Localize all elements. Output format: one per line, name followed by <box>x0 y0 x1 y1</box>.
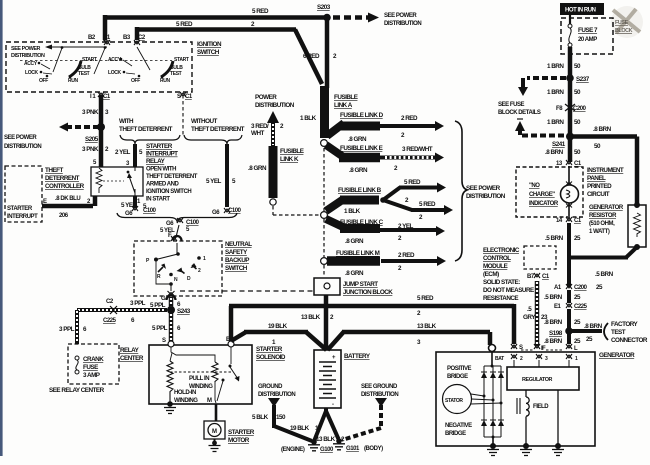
svg-text:.8 BRN: .8 BRN <box>584 323 603 330</box>
svg-text:C100: C100 <box>228 208 242 214</box>
svg-text:C200: C200 <box>573 106 587 112</box>
svg-text:M: M <box>212 429 217 435</box>
svg-text:CONTROLLER: CONTROLLER <box>45 183 85 190</box>
svg-text:RUN: RUN <box>160 78 171 84</box>
svg-text:S203: S203 <box>317 4 331 11</box>
svg-text:SWITCH: SWITCH <box>197 49 220 56</box>
svg-text:.8 GRN: .8 GRN <box>345 238 364 245</box>
svg-text:ACCY: ACCY <box>24 61 38 67</box>
svg-text:FUSIBLE LINK B: FUSIBLE LINK B <box>338 187 382 194</box>
svg-text:150: 150 <box>276 414 286 421</box>
svg-text:BRIDGE: BRIDGE <box>445 431 466 437</box>
svg-text:5 PPL: 5 PPL <box>152 325 168 332</box>
svg-text:ACCY: ACCY <box>108 57 122 63</box>
svg-text:BATTERY: BATTERY <box>344 353 371 360</box>
svg-text:FUSIBLE LINK C: FUSIBLE LINK C <box>340 219 384 226</box>
svg-text:THEFT DETERRENT: THEFT DETERRENT <box>119 126 173 133</box>
svg-text:50: 50 <box>574 149 581 156</box>
svg-text:C1: C1 <box>185 94 193 100</box>
svg-text:SEE POWER: SEE POWER <box>11 46 41 52</box>
svg-text:50: 50 <box>574 63 581 70</box>
svg-text:POSITIVE: POSITIVE <box>447 366 472 372</box>
svg-text:1 BLK: 1 BLK <box>344 208 361 215</box>
svg-text:SEE RELAY CENTER: SEE RELAY CENTER <box>49 387 105 394</box>
svg-text:MOTOR: MOTOR <box>228 437 250 444</box>
svg-text:25: 25 <box>574 235 581 242</box>
svg-text:ELECTRONIC: ELECTRONIC <box>483 247 520 254</box>
svg-text:2 YEL: 2 YEL <box>115 149 131 156</box>
svg-text:POWER: POWER <box>255 94 277 101</box>
svg-text:FUSE: FUSE <box>83 364 98 371</box>
svg-text:RELAY: RELAY <box>146 158 166 165</box>
svg-text:PANEL: PANEL <box>587 175 606 182</box>
svg-text:.8 GRN: .8 GRN <box>248 165 267 172</box>
svg-text:25: 25 <box>574 319 581 326</box>
svg-text:BLOCK DETAILS: BLOCK DETAILS <box>498 110 541 116</box>
svg-text:STATOR: STATOR <box>445 398 463 404</box>
svg-text:START: START <box>82 57 97 63</box>
svg-text:WITHOUT: WITHOUT <box>191 118 218 125</box>
svg-text:SEE POWER: SEE POWER <box>384 13 417 19</box>
svg-text:SOLENOID: SOLENOID <box>256 354 286 361</box>
svg-text:206: 206 <box>59 213 69 219</box>
svg-text:LOCK: LOCK <box>25 70 39 76</box>
svg-text:FUSE 7: FUSE 7 <box>578 27 598 34</box>
svg-text:C2: C2 <box>106 299 114 305</box>
svg-text:FACTORY: FACTORY <box>611 321 639 328</box>
svg-text:STARTER: STARTER <box>146 143 173 150</box>
svg-text:.5 BRN: .5 BRN <box>595 271 614 278</box>
svg-text:3 PPL: 3 PPL <box>59 326 75 333</box>
svg-text:3 RED/: 3 RED/ <box>251 123 269 130</box>
svg-text:INSTRUMENT: INSTRUMENT <box>587 167 624 174</box>
svg-text:LINK K: LINK K <box>280 156 299 163</box>
svg-text:THEFT DETERRENT: THEFT DETERRENT <box>146 174 198 180</box>
svg-text:SEE GROUND: SEE GROUND <box>361 384 398 390</box>
svg-text:INTERRUPT: INTERRUPT <box>7 214 38 220</box>
svg-text:HOT IN RUN: HOT IN RUN <box>565 8 596 14</box>
svg-text:REGULATOR: REGULATOR <box>522 377 553 383</box>
svg-text:RELAY: RELAY <box>120 347 140 354</box>
svg-text:B3: B3 <box>123 35 131 41</box>
svg-text:START: START <box>174 57 189 63</box>
svg-text:OFF: OFF <box>131 78 140 84</box>
svg-text:SEE FUSE: SEE FUSE <box>498 102 525 108</box>
svg-text:25: 25 <box>574 338 581 345</box>
svg-text:STARTER: STARTER <box>7 206 33 212</box>
svg-text:S205: S205 <box>85 136 99 143</box>
svg-text:G6: G6 <box>212 210 220 216</box>
svg-text:JUMP START: JUMP START <box>343 281 378 288</box>
svg-text:C225: C225 <box>574 304 588 310</box>
svg-text:(BODY): (BODY) <box>364 446 383 452</box>
svg-text:S241: S241 <box>552 141 566 148</box>
svg-text:LOCK: LOCK <box>108 70 122 76</box>
svg-text:MODULE: MODULE <box>483 263 508 270</box>
svg-text:IN START: IN START <box>146 197 170 203</box>
svg-text:HOLD-IN: HOLD-IN <box>174 390 196 396</box>
svg-text:RESISTANCE: RESISTANCE <box>483 295 518 302</box>
svg-text:C100: C100 <box>186 220 200 226</box>
svg-text:THEFT DETERRENT: THEFT DETERRENT <box>191 126 245 133</box>
svg-text:1 WATT): 1 WATT) <box>589 229 610 235</box>
svg-text:13 BLK: 13 BLK <box>417 323 437 330</box>
svg-text:13 BLK: 13 BLK <box>316 436 336 443</box>
svg-text:SWITCH: SWITCH <box>225 265 248 272</box>
svg-text:19 BLK: 19 BLK <box>290 425 310 432</box>
svg-text:S243: S243 <box>177 308 191 315</box>
svg-text:3 AMP: 3 AMP <box>83 372 100 379</box>
svg-text:GROUND: GROUND <box>258 384 283 390</box>
svg-text:5 YEL: 5 YEL <box>206 178 222 185</box>
svg-text:OFF: OFF <box>39 78 48 84</box>
svg-text:2 RED: 2 RED <box>398 252 415 259</box>
svg-text:G101: G101 <box>346 446 360 452</box>
svg-text:PULL IN: PULL IN <box>189 376 209 382</box>
svg-text:IGNITION SWITCH: IGNITION SWITCH <box>146 189 191 195</box>
svg-text:GENERATOR: GENERATOR <box>599 352 635 359</box>
svg-text:DO NOT MEASURE: DO NOT MEASURE <box>483 287 534 294</box>
svg-text:CIRCUIT: CIRCUIT <box>587 191 610 198</box>
svg-text:PRINTED: PRINTED <box>587 183 612 190</box>
svg-text:20 AMP: 20 AMP <box>578 37 597 43</box>
svg-text:TEST: TEST <box>611 329 626 336</box>
svg-text:23: 23 <box>541 314 548 321</box>
svg-text:.8 DK BLU: .8 DK BLU <box>55 196 80 202</box>
svg-text:2 RED: 2 RED <box>401 115 418 122</box>
svg-text:.8 BRN: .8 BRN <box>545 149 564 156</box>
svg-text:5 RED: 5 RED <box>252 8 269 15</box>
svg-text:25: 25 <box>586 336 593 343</box>
svg-text:.5 BRN: .5 BRN <box>545 235 564 242</box>
svg-text:C1: C1 <box>103 94 111 100</box>
svg-text:3 PNK: 3 PNK <box>82 109 99 116</box>
svg-text:B7: B7 <box>527 274 535 280</box>
svg-text:19 BLK: 19 BLK <box>268 323 288 330</box>
svg-text:C1: C1 <box>574 161 582 167</box>
svg-text:3 PPL: 3 PPL <box>130 300 146 307</box>
svg-text:FUSIBLE LINK D: FUSIBLE LINK D <box>340 112 384 119</box>
svg-text:CENTER: CENTER <box>120 355 144 362</box>
svg-text:JUNCTION BLOCK: JUNCTION BLOCK <box>343 289 393 296</box>
svg-text:.8 GRN: .8 GRN <box>345 270 364 277</box>
svg-text:5 BLK: 5 BLK <box>252 414 269 421</box>
svg-text:RUN: RUN <box>68 78 79 84</box>
svg-text:C100: C100 <box>143 208 157 214</box>
svg-text:SEE POWER: SEE POWER <box>4 135 37 141</box>
svg-text:(ENGINE): (ENGINE) <box>281 447 305 453</box>
svg-text:1 BRN: 1 BRN <box>547 89 564 96</box>
svg-text:NEUTRAL: NEUTRAL <box>225 241 252 248</box>
svg-text:DISTRIBUTION: DISTRIBUTION <box>11 53 45 59</box>
svg-text:DISTRIBUTION: DISTRIBUTION <box>4 144 41 150</box>
svg-text:.5 BRN: .5 BRN <box>544 294 563 301</box>
svg-text:DISTRIBUTION: DISTRIBUTION <box>258 392 295 398</box>
svg-text:25: 25 <box>596 284 603 291</box>
svg-text:SOLID STATE:: SOLID STATE: <box>483 279 520 286</box>
svg-text:A1: A1 <box>554 285 562 291</box>
svg-text:FUSIBLE: FUSIBLE <box>334 94 358 101</box>
svg-text:SEE POWER: SEE POWER <box>466 185 501 192</box>
svg-text:FUSIBLE LINK M: FUSIBLE LINK M <box>336 250 380 257</box>
svg-text:"NO: "NO <box>529 183 540 189</box>
svg-text:3 PNK: 3 PNK <box>82 146 99 153</box>
svg-text:50: 50 <box>594 143 601 150</box>
svg-text:6 RED: 6 RED <box>303 53 320 60</box>
svg-text:SAFETY: SAFETY <box>225 249 248 256</box>
svg-text:C225: C225 <box>103 318 117 324</box>
svg-text:5 RED: 5 RED <box>176 21 193 28</box>
svg-text:G100: G100 <box>320 447 334 453</box>
svg-text:CRANK: CRANK <box>83 356 104 363</box>
svg-text:DISTRIBUTION: DISTRIBUTION <box>361 392 398 398</box>
svg-text:THEFT: THEFT <box>45 167 63 174</box>
svg-text:GRY: GRY <box>523 314 536 321</box>
svg-text:50: 50 <box>574 89 581 96</box>
svg-text:DETERRENT: DETERRENT <box>45 175 80 182</box>
svg-text:25: 25 <box>574 294 581 301</box>
svg-text:WINDING: WINDING <box>174 398 198 404</box>
svg-text:DISTRIBUTION: DISTRIBUTION <box>384 21 421 27</box>
svg-text:GENERATOR: GENERATOR <box>589 205 624 211</box>
svg-text:IGNITION: IGNITION <box>197 41 222 48</box>
svg-text:INDICATOR: INDICATOR <box>529 201 559 207</box>
svg-text:C1: C1 <box>542 274 550 280</box>
svg-text:WITH: WITH <box>119 118 134 125</box>
svg-text:5 RED: 5 RED <box>404 179 421 186</box>
svg-text:.8 BRN: .8 BRN <box>593 126 612 133</box>
svg-text:5 PPL: 5 PPL <box>150 302 166 309</box>
svg-text:DISTRIBUTION: DISTRIBUTION <box>255 102 295 109</box>
svg-text:STARTER: STARTER <box>256 346 283 353</box>
svg-text:BACKUP: BACKUP <box>225 257 249 264</box>
svg-text:3 RED/WHT: 3 RED/WHT <box>402 146 433 153</box>
svg-text:FUSIBLE: FUSIBLE <box>280 148 304 155</box>
svg-text:C1: C1 <box>574 218 582 224</box>
svg-text:B2: B2 <box>88 35 96 41</box>
svg-text:BAT: BAT <box>495 356 504 362</box>
svg-text:1 BRN: 1 BRN <box>547 119 564 126</box>
svg-text:C2: C2 <box>138 35 146 41</box>
svg-text:DISTRIBUTION: DISTRIBUTION <box>466 193 506 200</box>
svg-text:S198: S198 <box>549 330 563 337</box>
svg-text:STARTER: STARTER <box>228 429 255 436</box>
svg-text:CHARGE": CHARGE" <box>529 192 555 198</box>
svg-text:50: 50 <box>574 119 581 126</box>
svg-text:M: M <box>207 398 212 404</box>
svg-text:.8 GRN: .8 GRN <box>348 136 367 143</box>
svg-text:(ECM): (ECM) <box>483 271 499 278</box>
svg-text:ARMED AND: ARMED AND <box>146 182 180 188</box>
svg-text:CONNECTOR: CONNECTOR <box>611 337 648 344</box>
svg-text:.8 GRN: .8 GRN <box>349 167 368 174</box>
svg-text:NEGATIVE: NEGATIVE <box>445 423 472 429</box>
svg-text:TEST: TEST <box>78 71 90 77</box>
svg-text:FIELD: FIELD <box>533 404 549 410</box>
svg-text:S237: S237 <box>576 76 590 83</box>
svg-text:E1: E1 <box>554 304 562 310</box>
svg-text:S: S <box>162 338 166 344</box>
svg-text:CONTROL: CONTROL <box>483 255 511 262</box>
svg-text:INTERRUPT: INTERRUPT <box>146 151 178 158</box>
svg-text:BRIDGE: BRIDGE <box>447 374 468 380</box>
svg-text:RESISTOR: RESISTOR <box>589 213 617 219</box>
svg-text:FUSIBLE LINK E: FUSIBLE LINK E <box>340 145 383 152</box>
svg-text:2 YEL: 2 YEL <box>398 223 414 230</box>
svg-text:1 BLK: 1 BLK <box>300 115 317 122</box>
svg-text:5 RED: 5 RED <box>419 201 436 208</box>
svg-text:13 BLK: 13 BLK <box>301 314 321 321</box>
svg-text:.8 BRN: .8 BRN <box>544 338 563 345</box>
svg-text:5 RED: 5 RED <box>417 295 434 302</box>
svg-text:TEST: TEST <box>170 71 182 77</box>
svg-text:1 BRN: 1 BRN <box>547 63 564 70</box>
svg-text:LINK A: LINK A <box>334 102 353 109</box>
svg-text:(510 OHM,: (510 OHM, <box>589 221 615 227</box>
svg-text:G6: G6 <box>166 221 174 227</box>
svg-text:C200: C200 <box>574 285 588 291</box>
svg-text:G6: G6 <box>125 211 133 217</box>
svg-text:OPEN WITH: OPEN WITH <box>146 167 176 173</box>
svg-text:WHT: WHT <box>251 130 264 137</box>
